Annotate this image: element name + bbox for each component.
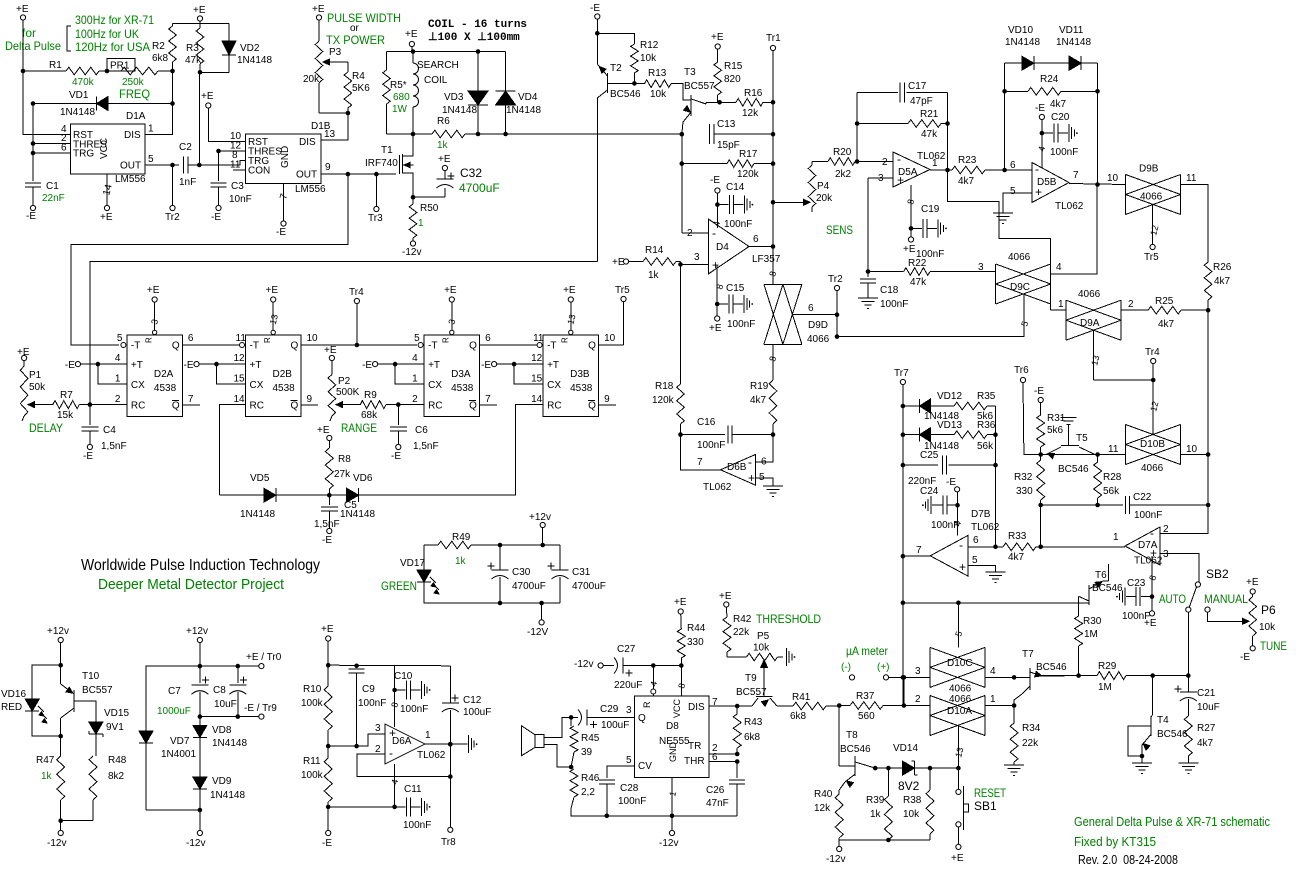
- wire feedback B: [90, 261, 597, 404]
- node C22 right: [1206, 503, 1211, 508]
- terminal -E +T D2A: [65, 360, 98, 371]
- node OUT: [170, 163, 175, 168]
- svg-text:VD12: VD12: [937, 391, 962, 402]
- svg-text:C31: C31: [572, 567, 591, 578]
- svg-text:10uF: 10uF: [1197, 702, 1220, 713]
- pin 10 Q: [307, 333, 319, 344]
- svg-text:R1: R1: [49, 60, 62, 71]
- svg-text:1N4148: 1N4148: [240, 509, 275, 520]
- ground T4: [1132, 763, 1152, 774]
- pin 12: [230, 141, 242, 152]
- pin 14 RC: [531, 394, 543, 405]
- IC D2A 4538: [127, 335, 182, 417]
- terminal -12v R50: [402, 241, 421, 258]
- svg-text:R11: R11: [303, 756, 321, 767]
- terminal Tr2: [165, 165, 180, 223]
- svg-text:MANUAL: MANUAL: [1204, 592, 1248, 606]
- wire D7A pin3: [1160, 554, 1199, 582]
- svg-text:+E / Tr0: +E / Tr0: [246, 652, 282, 663]
- node VD1 right: [170, 101, 175, 106]
- svg-text:2: 2: [115, 394, 121, 405]
- resistor R18 120k: [652, 381, 684, 435]
- svg-text:D10A: D10A: [947, 706, 972, 717]
- svg-text:4700uF: 4700uF: [512, 581, 546, 592]
- node ctl13: [956, 766, 961, 771]
- svg-text:D9B: D9B: [1139, 164, 1159, 175]
- wire +12v psu down: [199, 643, 201, 684]
- svg-text:R31: R31: [1047, 413, 1066, 424]
- wire D7A out row: [1041, 546, 1125, 548]
- svg-text:+E: +E: [317, 425, 330, 436]
- svg-text:10k: 10k: [1259, 622, 1276, 633]
- terminal +E R8: [317, 425, 332, 448]
- capacitor C7 1000uF: [157, 677, 209, 718]
- svg-text:PR1: PR1: [110, 61, 130, 72]
- svg-text:+E: +E: [321, 624, 334, 635]
- svg-text:VD17: VD17: [400, 558, 425, 569]
- svg-text:BC546: BC546: [1036, 662, 1067, 673]
- svg-text:R: R: [561, 337, 570, 343]
- terminal Tr3: [368, 174, 383, 224]
- svg-text:BC546: BC546: [1058, 464, 1089, 475]
- wire pin3 D5A: [868, 177, 893, 179]
- node T1 source: [411, 195, 416, 200]
- node Tr2 bottom: [835, 334, 840, 339]
- node R12 bottom: [632, 81, 637, 86]
- resistor R5* 680 1W: [383, 52, 410, 135]
- svg-text:VD10: VD10: [1008, 25, 1033, 36]
- wire to C3: [218, 151, 220, 181]
- svg-text:C1: C1: [46, 181, 59, 192]
- svg-text:1000uF: 1000uF: [157, 706, 191, 717]
- resistor R23 4k7: [952, 155, 1032, 187]
- svg-text:1: 1: [932, 158, 938, 169]
- terminal -E +T D3A: [362, 360, 395, 371]
- wire D4 pin2: [682, 232, 709, 234]
- node VD3 top: [476, 49, 481, 54]
- svg-text:-E: -E: [481, 360, 491, 371]
- svg-text:15: 15: [234, 374, 246, 385]
- capacitor C23 100nF: [1116, 556, 1158, 629]
- wire T10 base: [74, 701, 96, 722]
- svg-text:R9: R9: [364, 390, 377, 401]
- svg-text:R36: R36: [977, 420, 996, 431]
- svg-text:Tr4: Tr4: [1145, 347, 1160, 358]
- node C30 top: [498, 543, 503, 548]
- node C29 left: [569, 715, 574, 720]
- zener VD14 8V2: [893, 743, 958, 793]
- svg-text:T8: T8: [846, 730, 858, 741]
- svg-text:T6: T6: [1095, 570, 1107, 581]
- svg-text:3: 3: [978, 262, 984, 273]
- wire C17 left: [856, 93, 858, 162]
- label pin10: [1107, 173, 1119, 184]
- svg-text:1k: 1k: [455, 556, 467, 567]
- wire D5B out: [1069, 184, 1126, 185]
- svg-text:VD2: VD2: [240, 43, 260, 54]
- svg-text:VD14: VD14: [893, 743, 918, 754]
- svg-text:+E: +E: [201, 91, 214, 102]
- svg-text:Tr4: Tr4: [349, 287, 364, 298]
- node psu mid: [198, 714, 203, 719]
- resistor R40 12k: [814, 789, 843, 840]
- svg-text:TL062: TL062: [971, 522, 1000, 533]
- pin 13: [324, 129, 336, 140]
- capacitor C4 1,5nF: [81, 405, 126, 452]
- terminal -E under C1: [26, 205, 36, 222]
- svg-text:1nF: 1nF: [179, 177, 196, 188]
- svg-text:C26: C26: [706, 785, 725, 796]
- svg-text:100nF: 100nF: [358, 698, 386, 709]
- capacitor C27 220uF: [603, 644, 653, 691]
- svg-text:+12v: +12v: [186, 626, 208, 637]
- switch D10A ctl: [953, 726, 965, 769]
- svg-text:+E: +E: [563, 285, 576, 296]
- pin 2: [61, 133, 67, 144]
- svg-text:-E: -E: [322, 838, 332, 849]
- node R6 left: [411, 132, 416, 137]
- label TL062 D7A: [1134, 556, 1163, 567]
- svg-text:BC546: BC546: [840, 744, 871, 755]
- node vcc tee: [679, 663, 684, 668]
- wire DIS13: [321, 113, 348, 140]
- svg-text:D7A: D7A: [1138, 540, 1158, 551]
- node R3 bottom: [198, 70, 203, 75]
- node R36 right: [993, 432, 998, 437]
- svg-text:8k2: 8k2: [108, 771, 125, 782]
- svg-text:VD16: VD16: [1, 689, 26, 700]
- svg-text:Tr8: Tr8: [441, 837, 456, 848]
- svg-text:R: R: [144, 337, 153, 343]
- label COIL - 16 turns: [428, 19, 527, 31]
- pot P1 50k DELAY: [17, 347, 63, 435]
- svg-text:47pF: 47pF: [910, 96, 933, 107]
- label 250k FREQ: [119, 77, 150, 101]
- credit line 3: [1078, 853, 1178, 867]
- LED VD17 GREEN: [381, 545, 439, 594]
- wire Tr4 down: [1152, 364, 1154, 415]
- diode VD8 1N4148: [193, 717, 248, 777]
- node T3 emitter: [680, 132, 685, 137]
- svg-text:D5B: D5B: [1037, 177, 1057, 188]
- switch D9B 4066: [1126, 164, 1181, 215]
- svg-text:GND: GND: [668, 742, 678, 763]
- wire D6B out: [681, 435, 721, 470]
- transistor T10 BC557: [61, 671, 113, 736]
- svg-text:D5A: D5A: [898, 167, 918, 178]
- svg-text:LM556: LM556: [295, 184, 326, 195]
- wire R37 to D10A: [904, 705, 930, 707]
- capacitor C32 4700uF: [413, 154, 500, 197]
- label pin11: [1186, 173, 1197, 184]
- svg-text:1M: 1M: [1098, 682, 1112, 693]
- node Tr4 tee: [355, 343, 360, 348]
- svg-text:560: 560: [858, 711, 875, 722]
- pin 1 CX: [98, 364, 127, 384]
- svg-text:13: 13: [565, 313, 577, 325]
- svg-text:120k: 120k: [652, 395, 675, 406]
- resistor R12 10k: [631, 40, 659, 83]
- svg-text:100k: 100k: [301, 698, 324, 709]
- resistor R25 4k7: [1121, 296, 1208, 330]
- node D6A fb: [448, 774, 453, 779]
- node R21 left: [855, 121, 860, 126]
- node R21 right: [945, 121, 950, 126]
- wire THR row: [709, 762, 737, 779]
- node T7 in: [1012, 675, 1017, 680]
- node TRG tee: [31, 151, 36, 156]
- svg-text:7: 7: [278, 192, 290, 201]
- svg-text:1k: 1k: [41, 771, 53, 782]
- label 100 X 100mm: [428, 32, 520, 44]
- node R29 right: [1150, 673, 1155, 678]
- node D10A out: [1012, 703, 1017, 708]
- svg-text:1,5nF: 1,5nF: [101, 441, 127, 452]
- terminal +12v psu: [186, 626, 208, 643]
- resistor R41 6k8: [777, 692, 839, 722]
- svg-text:6: 6: [753, 234, 759, 245]
- svg-text:VD5: VD5: [250, 473, 270, 484]
- svg-text:47k: 47k: [921, 129, 938, 140]
- svg-text:AUTO: AUTO: [1159, 592, 1186, 606]
- svg-text:TL062: TL062: [703, 482, 732, 493]
- svg-text:7: 7: [916, 545, 922, 556]
- svg-text:4066: 4066: [1141, 463, 1164, 474]
- wire Q6 D2A to D2B: [182, 344, 239, 346]
- svg-text:100uF: 100uF: [463, 707, 491, 718]
- pin 5: [148, 154, 154, 165]
- node R45 bottom: [569, 765, 574, 770]
- capacitor C24 100nF: [920, 477, 963, 536]
- terminal +E D3B: [563, 285, 576, 302]
- wire D9B ctl: [1152, 205, 1154, 245]
- svg-text:OUT: OUT: [120, 161, 141, 172]
- svg-text:100k: 100k: [301, 770, 324, 781]
- resistor R45 39: [570, 717, 600, 767]
- wire to R12: [597, 33, 634, 44]
- wire Tr1 rail: [772, 51, 774, 247]
- pin 4 +T: [395, 353, 424, 364]
- svg-text:100nF: 100nF: [403, 820, 431, 831]
- svg-text:1N4148: 1N4148: [60, 107, 95, 118]
- node coil top: [411, 49, 416, 54]
- terminal Tr7: [894, 368, 909, 385]
- ground D6B: [763, 486, 783, 497]
- svg-text:C15: C15: [726, 283, 745, 294]
- svg-text:-: -: [1035, 162, 1039, 176]
- svg-text:-12v: -12v: [186, 838, 205, 849]
- node meter row: [902, 675, 907, 680]
- pin 7 label: [712, 697, 718, 708]
- svg-text:1N4148: 1N4148: [442, 105, 477, 116]
- speaker: [522, 726, 544, 756]
- svg-text:-12v: -12v: [47, 838, 66, 849]
- svg-text:P5: P5: [757, 631, 770, 642]
- terminal -12v C27: [574, 659, 603, 670]
- svg-text:SB1: SB1: [974, 799, 997, 813]
- wire Tr6 rail: [1023, 383, 1041, 455]
- svg-text:CX: CX: [547, 380, 561, 391]
- switch SB2: [1186, 567, 1229, 612]
- svg-text:10k: 10k: [640, 53, 657, 64]
- label pin8 below: [767, 355, 778, 362]
- wire meter rail: [903, 677, 905, 705]
- node Tr1-R16: [771, 100, 776, 105]
- op-amp D7B TL062: [916, 509, 1000, 576]
- svg-text:50k: 50k: [29, 382, 46, 393]
- node D6A out: [448, 742, 453, 747]
- svg-text:VD3: VD3: [444, 92, 464, 103]
- svg-text:TUNE: TUNE: [1260, 639, 1287, 653]
- svg-text:T5: T5: [1076, 433, 1088, 444]
- node T10 top: [58, 663, 63, 668]
- svg-text:1,5nF: 1,5nF: [413, 441, 439, 452]
- node T3e-R17: [680, 161, 685, 166]
- label pin2 D10A: [915, 694, 921, 705]
- pin 13 top R: [263, 302, 280, 343]
- terminal Tr5: [615, 285, 630, 345]
- node C8 top: [236, 664, 241, 669]
- svg-text:+T: +T: [428, 360, 440, 371]
- terminal -E T2: [590, 3, 600, 19]
- node THRES D1B: [216, 149, 221, 154]
- capacitor C31 4700uF: [548, 545, 606, 603]
- svg-text:6k8: 6k8: [744, 732, 761, 743]
- svg-text:+E: +E: [100, 212, 113, 223]
- svg-text:DIS: DIS: [688, 702, 705, 713]
- svg-text:+: +: [712, 258, 719, 272]
- svg-text:8: 8: [1147, 574, 1158, 581]
- wire D9D ctl: [792, 314, 837, 316]
- resistor R36 56k: [954, 420, 996, 452]
- terminal Tr4 right: [1145, 347, 1160, 364]
- title: [81, 557, 320, 574]
- svg-text:C7: C7: [168, 686, 181, 697]
- svg-text:Q: Q: [291, 341, 299, 352]
- wire D5A-D9A run: [948, 170, 1051, 310]
- svg-text:-T: -T: [250, 341, 259, 352]
- wire D6A feedback: [357, 744, 450, 776]
- svg-text:-12V: -12V: [527, 627, 548, 638]
- svg-text:10: 10: [604, 333, 616, 344]
- node C16 right: [771, 432, 776, 437]
- node R43-TR: [735, 752, 740, 757]
- svg-text:11: 11: [1108, 444, 1119, 455]
- capacitor C2 1nF: [179, 142, 196, 188]
- svg-text:C32: C32: [460, 166, 482, 180]
- svg-text:R28: R28: [1103, 472, 1122, 483]
- terminal Tr1: [766, 33, 781, 51]
- svg-text:5k6: 5k6: [1047, 425, 1064, 436]
- svg-text:47k: 47k: [910, 277, 927, 288]
- svg-text:4k7: 4k7: [958, 176, 975, 187]
- switch D9D 4066: [764, 270, 830, 345]
- svg-text:12k: 12k: [814, 803, 831, 814]
- pin 9 Qbar: [307, 394, 313, 405]
- svg-text:56k: 56k: [977, 441, 994, 452]
- svg-text:C8: C8: [213, 685, 226, 696]
- svg-text:11: 11: [1186, 173, 1197, 184]
- svg-text:C4: C4: [103, 425, 116, 436]
- diode VD6: [329, 473, 375, 520]
- wire divider to pin3: [328, 734, 385, 746]
- svg-text:C21: C21: [1197, 688, 1216, 699]
- pin 9: [325, 162, 331, 173]
- wire D6B pin6: [755, 435, 773, 462]
- svg-text:R46: R46: [581, 773, 600, 784]
- svg-text:7: 7: [485, 394, 491, 405]
- terminal meter minus: [849, 675, 854, 680]
- wire Tr7 rail: [902, 385, 904, 706]
- svg-text:5: 5: [148, 154, 154, 165]
- svg-text:TRG: TRG: [73, 149, 94, 160]
- wire VD17 bottom: [424, 582, 560, 603]
- svg-text:VD15: VD15: [104, 708, 129, 719]
- pin 5 label: [626, 755, 632, 766]
- svg-text:9: 9: [325, 162, 331, 173]
- svg-text:FREQ: FREQ: [119, 87, 150, 101]
- svg-text:11: 11: [236, 333, 247, 344]
- subtitle: [98, 576, 285, 593]
- resistor R34 22k: [1010, 706, 1041, 766]
- trimmer PR1: [107, 59, 173, 75]
- svg-text:4700uF: 4700uF: [572, 581, 606, 592]
- svg-text:IRF740: IRF740: [365, 158, 398, 169]
- pin 12 +T: [217, 353, 246, 364]
- svg-text:4: 4: [412, 353, 418, 364]
- svg-text:1N4148: 1N4148: [210, 790, 245, 801]
- svg-text:+T: +T: [547, 360, 559, 371]
- capacitor C26 47nF: [706, 780, 745, 816]
- wire C18 vert: [867, 178, 869, 277]
- capacitor C11 100nF: [389, 764, 430, 816]
- svg-text:+E: +E: [147, 285, 160, 296]
- resistor R14 1k: [629, 245, 681, 281]
- svg-text:TX POWER: TX POWER: [326, 33, 385, 47]
- node pin2 D5A: [855, 159, 860, 164]
- node Tr4 right: [1151, 378, 1156, 383]
- node meter plus: [901, 675, 906, 680]
- svg-text:-E: -E: [184, 360, 194, 371]
- svg-text:47nF: 47nF: [706, 798, 729, 809]
- wire D9C ctl run: [837, 304, 1024, 337]
- label uA meter: [846, 644, 888, 658]
- label pin4 D10C: [990, 666, 996, 677]
- pin 4 bubble: [648, 666, 659, 697]
- svg-text:D9D: D9D: [808, 320, 828, 331]
- node Tr1-R17: [771, 161, 776, 166]
- wire Tr2 rail: [836, 291, 838, 337]
- svg-text:11: 11: [533, 333, 544, 344]
- terminal +E R15: [711, 32, 724, 49]
- svg-text:C22: C22: [1133, 492, 1152, 503]
- svg-text:(-): (-): [841, 662, 851, 673]
- label pin11 D10B: [1108, 444, 1119, 455]
- svg-text:+E: +E: [405, 29, 418, 40]
- svg-text:10k: 10k: [753, 643, 770, 654]
- svg-text:14: 14: [531, 394, 543, 405]
- node VD13 left: [901, 432, 906, 437]
- pin 7 stub D2A: [182, 404, 200, 406]
- node Tr1-C13: [771, 132, 776, 137]
- credit line 1: [1074, 815, 1270, 829]
- svg-text:C20: C20: [1051, 112, 1070, 123]
- resistor R2: [152, 24, 176, 72]
- pin 5 -T bubble: [117, 333, 126, 348]
- capacitor C14 100nF: [710, 175, 753, 230]
- capacitor C16 100nF: [681, 417, 774, 451]
- terminal +E R44: [674, 597, 687, 614]
